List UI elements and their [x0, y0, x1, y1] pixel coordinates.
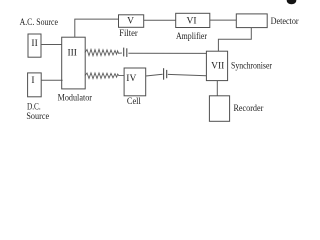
- svg-text:I: I: [31, 76, 34, 86]
- box recorder: [209, 96, 229, 122]
- svg-text:III: III: [67, 48, 77, 58]
- box II (A.C. source): [28, 34, 41, 57]
- box IV (cell): [124, 68, 146, 96]
- capacitor (upper): [124, 48, 127, 57]
- svg-text:VI: VI: [186, 17, 196, 27]
- svg-text:Synchroniser: Synchroniser: [231, 61, 272, 71]
- svg-text:Amplifier: Amplifier: [176, 31, 207, 41]
- svg-text:A.C. Source: A.C. Source: [20, 17, 58, 27]
- label: D.C. Source: [26, 102, 49, 121]
- svg-text:Filter: Filter: [119, 28, 138, 38]
- wire: filter V to amplifier VI: [144, 19, 176, 21]
- svg-text:Recorder: Recorder: [234, 103, 264, 113]
- resistor (lower, hand-drawn): [85, 73, 124, 79]
- box VII (synchroniser): [206, 51, 227, 80]
- wire: detector to synchroniser VII: [218, 28, 251, 52]
- resistor (upper, hand-drawn): [85, 49, 122, 55]
- svg-text:VII: VII: [211, 61, 224, 71]
- svg-text:Source: Source: [26, 111, 49, 121]
- cropped text artifact top-right: [287, 0, 297, 4]
- svg-text:II: II: [31, 39, 37, 49]
- svg-text:IV: IV: [126, 74, 136, 84]
- wire: upper capacitor to synchroniser VII: [128, 52, 206, 54]
- box III (modulator): [62, 37, 85, 89]
- svg-text:Modulator: Modulator: [58, 93, 92, 103]
- box V (filter): [119, 15, 144, 27]
- capacitor (lower): [164, 68, 167, 80]
- svg-text:Detector: Detector: [271, 16, 299, 26]
- wire: synchroniser VII to recorder: [216, 81, 218, 96]
- wire: modulator III top to filter V: [75, 19, 119, 37]
- wire: lower capacitor to synchroniser VII: [168, 74, 207, 75]
- box I (D.C. source): [28, 73, 42, 97]
- svg-text:V: V: [127, 17, 134, 27]
- svg-text:Cell: Cell: [127, 96, 141, 106]
- wire: cell IV to lower capacitor: [146, 74, 163, 76]
- wire: I to modulator III: [41, 79, 62, 81]
- wire: amplifier VI to detector: [210, 19, 237, 21]
- box VI (amplifier): [176, 13, 210, 27]
- box detector: [236, 14, 267, 28]
- wire: II to modulator III: [41, 44, 62, 46]
